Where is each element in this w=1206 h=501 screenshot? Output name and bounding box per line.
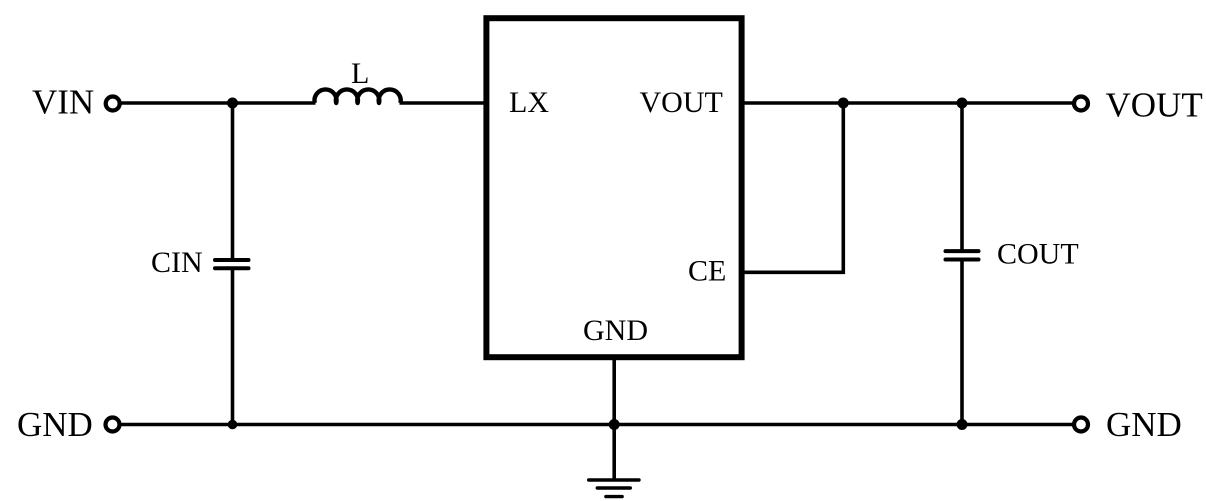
svg-text:GND: GND — [583, 314, 648, 347]
svg-text:CIN: CIN — [151, 246, 203, 279]
svg-text:CE: CE — [688, 255, 726, 288]
svg-text:GND: GND — [17, 405, 93, 444]
svg-text:LX: LX — [509, 86, 549, 119]
wire pin GND to GND rail — [612, 357, 616, 425]
wire node A to capacitor CIN — [231, 103, 235, 259]
svg-text:L: L — [351, 57, 369, 90]
node D junction (CIN / GND rail) — [228, 420, 238, 430]
svg-text:GND: GND — [1106, 405, 1182, 444]
ground symbol — [589, 425, 639, 497]
node C junction (VOUT / COUT) — [957, 98, 968, 109]
wire node B to pin CE — [744, 103, 843, 272]
wire pin VOUT to VOUT terminal (through nodes B and C) — [744, 101, 1073, 105]
IC U1 body — [486, 18, 741, 357]
wire GND rail — [122, 423, 1073, 427]
wire inductor L to pin LX — [400, 101, 486, 105]
wire capacitor CIN to GND rail — [231, 270, 235, 425]
terminal VIN (open circle) — [106, 97, 120, 111]
terminal GND left (open circle) — [106, 418, 120, 432]
terminal VOUT (open circle) — [1074, 97, 1088, 111]
inductor L — [315, 89, 401, 103]
terminal GND right (open circle) — [1074, 418, 1088, 432]
svg-text:VOUT: VOUT — [1106, 86, 1203, 125]
node E junction (IC GND / GND rail) — [609, 419, 620, 430]
svg-text:VOUT: VOUT — [640, 86, 723, 119]
wire capacitor COUT to GND rail — [960, 261, 964, 425]
node B junction (VOUT / CE) — [838, 98, 849, 109]
node A junction (VIN / CIN) — [227, 98, 238, 109]
capacitor COUT — [946, 251, 979, 259]
wire VIN terminal to LX (through node A) — [122, 101, 316, 105]
wire node C to capacitor COUT — [960, 103, 964, 250]
svg-text:VIN: VIN — [32, 83, 94, 122]
capacitor CIN — [215, 260, 249, 268]
svg-text:COUT: COUT — [997, 238, 1079, 271]
node F junction (COUT / GND rail) — [957, 419, 968, 430]
